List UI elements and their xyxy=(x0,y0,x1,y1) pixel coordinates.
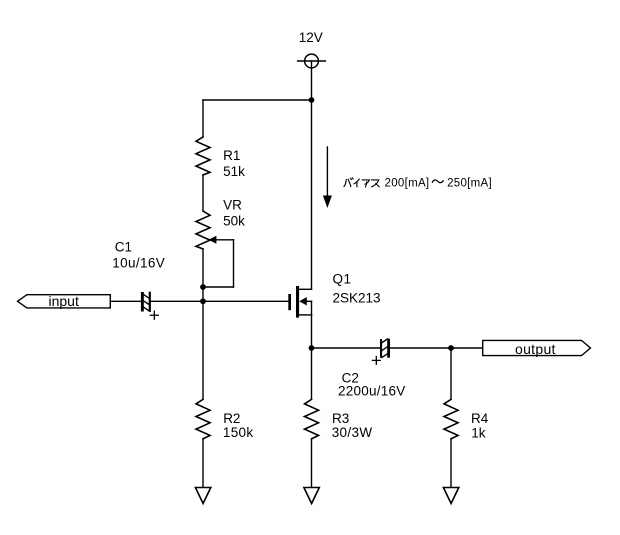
svg-text:10u/16V: 10u/16V xyxy=(112,256,165,271)
wire input to C1 xyxy=(110,300,141,302)
svg-text:Q1: Q1 xyxy=(333,271,352,286)
svg-text:2SK213: 2SK213 xyxy=(333,290,381,305)
wire C2 to output node xyxy=(390,347,451,349)
wire R3 to ground xyxy=(311,439,313,488)
svg-text:12V: 12V xyxy=(299,30,323,45)
svg-text:50k: 50k xyxy=(223,213,245,228)
node gate junction xyxy=(200,298,206,304)
wire R2 to ground xyxy=(202,439,204,488)
resistor R3 xyxy=(305,399,319,439)
bias annotation text xyxy=(344,177,492,189)
svg-text:2200u/16V: 2200u/16V xyxy=(338,384,406,399)
wire R4 to ground xyxy=(450,439,452,488)
wire 12V terminal to rail xyxy=(311,68,313,100)
svg-text:R4: R4 xyxy=(471,411,489,426)
node wiper junction xyxy=(200,284,206,290)
power terminal 12V xyxy=(298,54,326,68)
output terminal xyxy=(483,340,591,356)
transistor Q1 xyxy=(288,286,311,318)
svg-text:R2: R2 xyxy=(223,411,240,426)
wire top rail horizontal xyxy=(203,99,312,101)
bias current arrow xyxy=(323,147,332,208)
ground under R2 xyxy=(195,488,210,504)
svg-text:200[mA]: 200[mA] xyxy=(385,177,430,189)
capacitor C2 xyxy=(372,339,390,365)
input terminal xyxy=(18,293,111,309)
svg-text:VR: VR xyxy=(223,197,242,212)
svg-text:51k: 51k xyxy=(223,164,245,179)
svg-text:C1: C1 xyxy=(115,239,132,254)
resistor R4 xyxy=(444,399,458,439)
node output junction xyxy=(448,345,454,351)
svg-text:output: output xyxy=(515,341,556,357)
wire VR bottom to gate node xyxy=(202,249,204,301)
capacitor C1 xyxy=(141,292,158,320)
svg-text:30/3W: 30/3W xyxy=(332,425,373,440)
ground under R3 xyxy=(304,488,319,504)
svg-text:input: input xyxy=(49,293,79,309)
svg-text:R3: R3 xyxy=(332,411,349,426)
wire drain up to rail xyxy=(311,100,313,289)
wire source down to output node xyxy=(311,315,313,348)
wire C1 to gate xyxy=(151,300,288,302)
resistor R2 xyxy=(196,399,210,439)
svg-text:150k: 150k xyxy=(223,425,253,440)
node source junction xyxy=(309,345,315,351)
resistor R1 xyxy=(196,137,210,175)
ground under R4 xyxy=(443,488,458,504)
node junction top rail xyxy=(309,97,315,103)
svg-text:1k: 1k xyxy=(471,426,486,441)
svg-text:R1: R1 xyxy=(223,148,240,163)
wire output node to terminal xyxy=(451,347,483,349)
wire R1 to VR xyxy=(202,175,204,211)
potentiometer VR xyxy=(196,211,234,287)
wire gate node down to R2 xyxy=(202,301,204,399)
wire source node down to R3 xyxy=(311,348,313,399)
wire rail down to R1 xyxy=(202,100,204,137)
svg-text:250[mA]: 250[mA] xyxy=(447,177,492,189)
wire source node to C2 xyxy=(312,347,381,349)
wire output node down to R4 xyxy=(450,348,452,399)
